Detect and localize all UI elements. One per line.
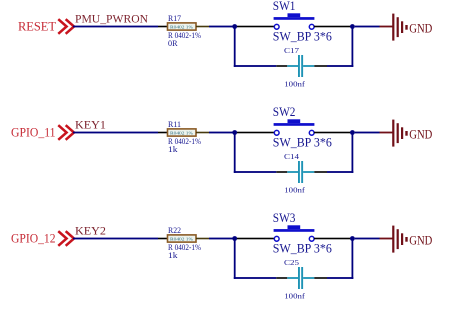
- svg-text:SW2: SW2: [273, 104, 296, 119]
- capacitor C17 100nf: [287, 55, 314, 77]
- wire left junction to switch pin 1: [237, 26, 274, 28]
- resistor R17 0R 0402: [168, 23, 197, 30]
- wire bottom rail left segment: [234, 277, 276, 279]
- svg-text:R17: R17: [168, 13, 181, 23]
- wire switch pin 2 to right junction: [314, 132, 350, 134]
- wire resistor to left junction: [196, 26, 209, 28]
- svg-text:RESET: RESET: [18, 18, 56, 33]
- wire bottom rail left segment: [234, 65, 276, 67]
- junction node left (row 2): [232, 130, 237, 135]
- port connector chevron for GPIO_11: [59, 126, 74, 139]
- wire vertical drop left (row 1): [234, 29, 236, 67]
- wire left junction to switch pin 1: [237, 238, 274, 240]
- svg-text:GND: GND: [409, 20, 432, 35]
- svg-text:GPIO_12: GPIO_12: [11, 231, 56, 245]
- svg-text:SW3: SW3: [273, 210, 296, 225]
- svg-text:SW1: SW1: [273, 0, 296, 13]
- svg-text:0R: 0R: [168, 38, 178, 48]
- svg-text:SW_BP 3*6: SW_BP 3*6: [273, 30, 332, 44]
- ground GND symbol (row 3): [380, 226, 408, 253]
- svg-text:R0402 1%: R0402 1%: [170, 24, 193, 29]
- ground GND symbol (row 1): [380, 14, 408, 41]
- svg-text:SW_BP 3*6: SW_BP 3*6: [273, 242, 332, 256]
- wire switch pin 2 to right junction: [314, 26, 350, 28]
- switch SW1 SW_BP 3*6 pushbutton: [274, 13, 315, 29]
- junction node left (row 3): [232, 236, 237, 241]
- svg-text:GND: GND: [409, 232, 432, 247]
- junction node left (row 1): [232, 24, 237, 29]
- wire vertical drop left (row 2): [234, 135, 236, 173]
- wire PMU_PWRON: connector to resistor: [73, 26, 158, 28]
- wire bottom rail right segment: [314, 277, 327, 279]
- svg-text:100nf: 100nf: [284, 80, 305, 88]
- svg-text:1k: 1k: [168, 144, 178, 154]
- svg-text:SW_BP 3*6: SW_BP 3*6: [273, 136, 332, 150]
- svg-text:C14: C14: [284, 152, 299, 161]
- wire right junction to GND: [355, 26, 380, 28]
- wire right junction to GND: [355, 132, 380, 134]
- wire KEY2: connector to resistor: [73, 238, 158, 240]
- switch SW3 SW_BP 3*6 pushbutton: [274, 225, 315, 241]
- wire bottom rail left segment: [234, 171, 276, 173]
- capacitor C25 100nf: [287, 267, 314, 289]
- svg-text:GND: GND: [409, 126, 432, 141]
- port connector chevron for RESET: [59, 20, 74, 33]
- svg-text:PMU_PWRON: PMU_PWRON: [75, 12, 148, 26]
- wire vertical drop right (row 1): [352, 29, 354, 67]
- capacitor C14 100nf: [287, 161, 314, 183]
- wire vertical drop right (row 2): [352, 135, 354, 173]
- svg-text:C17: C17: [284, 46, 299, 55]
- wire bottom rail right segment: [314, 171, 327, 173]
- switch SW2 SW_BP 3*6 pushbutton: [274, 119, 315, 135]
- svg-text:GPIO_11: GPIO_11: [11, 125, 56, 139]
- port connector chevron for GPIO_12: [59, 232, 74, 245]
- svg-text:KEY2: KEY2: [75, 224, 106, 238]
- svg-text:KEY1: KEY1: [75, 118, 106, 132]
- svg-text:R22: R22: [168, 225, 181, 235]
- wire vertical drop right (row 3): [352, 241, 354, 279]
- svg-text:100nf: 100nf: [284, 292, 305, 300]
- svg-text:100nf: 100nf: [284, 186, 305, 194]
- wire bottom rail right segment: [314, 65, 327, 67]
- wire switch pin 2 to right junction: [314, 238, 350, 240]
- wire resistor to left junction: [196, 238, 209, 240]
- svg-text:R0402 1%: R0402 1%: [170, 236, 193, 241]
- junction node right (row 2): [350, 130, 355, 135]
- ground GND symbol (row 2): [380, 120, 408, 147]
- svg-text:C25: C25: [284, 258, 299, 267]
- wire vertical drop left (row 3): [234, 241, 236, 279]
- wire resistor to left junction: [196, 132, 209, 134]
- svg-text:R0402 1%: R0402 1%: [170, 130, 193, 135]
- junction node right (row 3): [350, 236, 355, 241]
- wire left junction to switch pin 1: [237, 132, 274, 134]
- wire KEY1: connector to resistor: [73, 132, 158, 134]
- junction node right (row 1): [350, 24, 355, 29]
- svg-text:R11: R11: [168, 119, 181, 129]
- resistor R11 1k 0402: [168, 129, 197, 136]
- wire right junction to GND: [355, 238, 380, 240]
- resistor R22 1k 0402: [168, 235, 197, 242]
- svg-text:1k: 1k: [168, 250, 178, 260]
